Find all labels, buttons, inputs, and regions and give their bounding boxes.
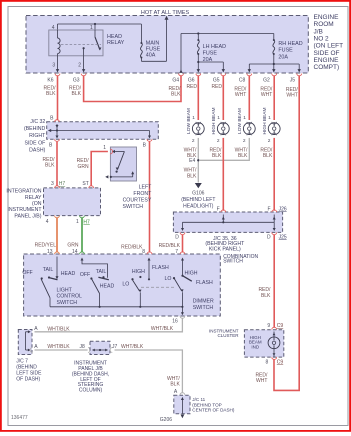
svg-text:H7: H7 — [83, 219, 90, 225]
LH head fuse 20A — [197, 39, 199, 41]
svg-text:9: 9 — [267, 323, 270, 329]
svg-text:INTEGRATION: INTEGRATION — [6, 189, 41, 195]
svg-text:BLK: BLK — [45, 163, 55, 169]
svg-text:OFF: OFF — [22, 270, 32, 276]
integration relay pin ST — [89, 186, 94, 188]
svg-text:TAIL: TAIL — [96, 269, 107, 275]
left front courtesy switch — [110, 147, 136, 181]
svg-text:BLK: BLK — [261, 293, 271, 299]
ground G106 — [195, 183, 202, 188]
head relay — [49, 30, 103, 56]
wire WHT/BLK pin 16 to J/C 7 — [35, 319, 183, 332]
svg-text:WHT: WHT — [261, 92, 272, 98]
high beam indicator pin 8 — [272, 357, 277, 359]
J/C 7 connector A bottom — [30, 348, 32, 353]
svg-text:FLASH: FLASH — [196, 280, 213, 286]
svg-text:C9: C9 — [277, 360, 284, 366]
wire RED/WHT J5 to high beam indicator — [274, 76, 299, 390]
svg-text:HIGH: HIGH — [132, 269, 145, 275]
svg-text:20A: 20A — [278, 54, 288, 60]
svg-text:ST: ST — [82, 181, 88, 187]
svg-text:G3: G3 — [73, 77, 80, 83]
J/C 35 36 connector F right — [272, 210, 277, 212]
svg-text:RED: RED — [186, 84, 197, 90]
wire RED/BLK J/C32 to light control switch pin 8 — [149, 142, 151, 253]
svg-text:1: 1 — [243, 115, 246, 121]
svg-text:SIDE OF: SIDE OF — [314, 50, 340, 57]
svg-text:13: 13 — [47, 249, 53, 255]
wire main fuse to head relay pins 4 and 1 — [140, 24, 142, 43]
wire RED/BLK LH high beam to J/C 35 36 — [222, 138, 224, 211]
svg-text:J25: J25 — [279, 234, 287, 240]
J/C 35 36 connector F left — [221, 210, 226, 212]
svg-text:2: 2 — [192, 138, 195, 144]
dimmer switch mechanical link — [141, 286, 174, 288]
svg-text:SWITCH: SWITCH — [123, 204, 144, 210]
svg-text:RED: RED — [211, 84, 222, 90]
light control switch contact set A — [56, 257, 58, 277]
junction connector J/C 11 — [174, 395, 190, 414]
svg-text:ENGINE: ENGINE — [314, 14, 340, 21]
svg-text:16: 16 — [172, 318, 178, 324]
svg-text:RED/BLK: RED/BLK — [121, 244, 143, 250]
svg-text:HEAD: HEAD — [107, 34, 122, 40]
junction connector J/C 7 — [18, 330, 32, 355]
svg-text:TAIL: TAIL — [43, 267, 54, 273]
svg-text:8: 8 — [266, 360, 269, 366]
svg-text:J26: J26 — [279, 206, 287, 212]
svg-text:J/B: J/B — [314, 28, 323, 35]
svg-text:BLK: BLK — [238, 153, 248, 159]
svg-text:FRONT: FRONT — [133, 191, 152, 197]
light control switch contact set B — [81, 258, 84, 261]
svg-text:J/C 32: J/C 32 — [30, 119, 45, 125]
RH low beam headlight — [247, 122, 252, 124]
integration relay pin 4 — [55, 216, 60, 218]
LH high beam headlight — [221, 122, 226, 124]
svg-text:1: 1 — [76, 219, 79, 225]
wire WHT/BLK instrument panel J/B to J/C 11 — [115, 350, 183, 393]
LH low beam headlight — [196, 122, 201, 124]
svg-text:14: 14 — [72, 249, 78, 255]
svg-text:D: D — [267, 234, 271, 240]
svg-text:LIGHT: LIGHT — [57, 287, 73, 293]
svg-text:G106: G106 — [192, 191, 204, 197]
dimmer switch contact set B — [181, 258, 184, 261]
wire RED/BLK RH high beam to J/C 35 36 — [273, 138, 275, 211]
svg-text:BLK: BLK — [72, 91, 82, 97]
svg-text:LOW BEAM: LOW BEAM — [186, 108, 192, 134]
svg-text:136477: 136477 — [11, 415, 28, 421]
connector G6 — [196, 74, 201, 76]
svg-text:40A: 40A — [146, 53, 156, 59]
svg-text:3: 3 — [52, 62, 55, 68]
svg-text:DIMMER: DIMMER — [193, 299, 214, 305]
head relay contact — [94, 30, 96, 37]
integration relay pin 3 — [55, 186, 60, 188]
wire RED/YEL integration relay to light control switch pin 13 — [56, 218, 58, 253]
J/C 7 connector A top — [30, 329, 32, 334]
svg-text:WHT: WHT — [235, 92, 246, 98]
junction connector J/C 32 — [47, 122, 159, 139]
svg-text:RELAY: RELAY — [107, 40, 125, 46]
svg-text:NO 2: NO 2 — [314, 35, 330, 42]
wire RED/BLK G3 to G4 loop — [84, 76, 181, 102]
svg-text:GRN: GRN — [77, 164, 89, 170]
svg-text:1: 1 — [90, 25, 93, 31]
engine room J/B No.2 box — [26, 16, 308, 74]
svg-text:KICK PANEL): KICK PANEL) — [209, 246, 241, 252]
svg-text:LEFT: LEFT — [139, 184, 153, 190]
svg-text:2: 2 — [217, 138, 220, 144]
svg-text:1: 1 — [192, 115, 195, 121]
svg-text:8: 8 — [142, 249, 145, 255]
wire RED/WHT C8 to RH low beam — [248, 76, 250, 120]
svg-text:CONTROL: CONTROL — [57, 294, 82, 300]
instrument cluster high beam indicator — [244, 330, 283, 357]
wire RED/BLK J/C32 to integration relay pin 3 — [56, 142, 58, 186]
wire RED/BLK J/C 35 36 to high beam indicator pin 9 — [273, 235, 275, 327]
svg-text:(BEHIND LEFT: (BEHIND LEFT — [181, 197, 215, 203]
svg-text:G206: G206 — [160, 417, 172, 423]
svg-text:OF DASH): OF DASH) — [16, 376, 40, 382]
svg-text:2: 2 — [268, 138, 271, 144]
LH head fuse output wires to G6 and G5 — [197, 54, 199, 70]
svg-text:WHT/BLK: WHT/BLK — [47, 326, 70, 332]
dimmer switch pin 7 — [180, 252, 185, 254]
J/C 11 connector A — [180, 393, 185, 395]
wire WHT/BLK J/C 7 to instrument panel J/B — [35, 349, 88, 351]
svg-text:LOW BEAM: LOW BEAM — [237, 108, 243, 134]
wire RED G5 to LH high beam — [222, 76, 224, 120]
svg-text:BLK: BLK — [171, 92, 181, 98]
svg-text:E4: E4 — [189, 158, 195, 164]
svg-text:2: 2 — [243, 138, 246, 144]
integration relay pin 1 — [80, 216, 85, 218]
svg-text:COMPT): COMPT) — [314, 64, 340, 71]
J/C 35 36 connector D right — [272, 233, 277, 235]
svg-text:4: 4 — [52, 25, 55, 31]
connector G5 — [221, 74, 226, 76]
combination switch pin 16 — [180, 316, 185, 318]
svg-text:J8: J8 — [80, 344, 86, 350]
wire RED/BLK K6 to J/C 32 — [57, 76, 59, 120]
connector K6 — [55, 74, 60, 76]
svg-text:1: 1 — [217, 115, 220, 121]
svg-text:FUSE: FUSE — [278, 48, 293, 54]
svg-text:J5: J5 — [290, 77, 296, 83]
svg-text:COLUMN): COLUMN) — [79, 388, 103, 394]
svg-text:OFF: OFF — [80, 272, 90, 278]
instrument panel J/B — [90, 341, 110, 354]
wire G4 to head fuses bus — [180, 34, 182, 72]
svg-text:BLK: BLK — [46, 91, 56, 97]
svg-text:HIGH BEAM: HIGH BEAM — [211, 108, 217, 135]
connector G2 — [272, 74, 277, 76]
integration relay — [44, 188, 101, 216]
svg-text:HIGH: HIGH — [185, 270, 198, 276]
wire RED/WHT G2 to RH high beam — [273, 76, 275, 120]
svg-text:LO: LO — [165, 276, 172, 282]
svg-text:H7: H7 — [59, 181, 66, 187]
wire feed from battery to main fuse — [166, 20, 168, 62]
light control switch pin 13 — [55, 252, 60, 254]
svg-text:HEAD: HEAD — [100, 283, 115, 289]
svg-text:BLK: BLK — [212, 153, 222, 159]
svg-text:HEAD: HEAD — [61, 271, 76, 277]
wire GRN integration relay to light control switch pin 14 — [81, 218, 83, 253]
svg-text:SWITCH: SWITCH — [57, 300, 78, 306]
svg-text:LH HEAD: LH HEAD — [203, 44, 226, 50]
svg-text:CENTER OF DASH): CENTER OF DASH) — [192, 408, 235, 413]
svg-text:K6: K6 — [47, 77, 53, 83]
svg-text:INSTRUMENT: INSTRUMENT — [7, 207, 42, 213]
wire RED G6 to LH low beam — [197, 76, 199, 120]
svg-text:RED/YEL: RED/YEL — [35, 242, 57, 248]
svg-text:SIDE OF: SIDE OF — [25, 140, 46, 146]
svg-text:D: D — [175, 234, 179, 240]
svg-text:1: 1 — [268, 115, 271, 121]
high beam indicator pin 9 — [272, 327, 277, 329]
svg-text:G6: G6 — [188, 77, 195, 83]
high beam indicator bulb — [273, 332, 275, 337]
instrument panel J/B connector J8 — [88, 348, 90, 353]
ground G206 — [181, 415, 185, 419]
switch output bus to pin 16 — [50, 306, 182, 308]
svg-text:J7: J7 — [112, 344, 118, 350]
RH head fuse 20A — [273, 39, 275, 41]
svg-text:F: F — [268, 206, 271, 212]
svg-text:4: 4 — [46, 219, 49, 225]
svg-text:HOT AT ALL TIMES: HOT AT ALL TIMES — [141, 10, 190, 16]
svg-text:PANEL J/B): PANEL J/B) — [14, 213, 41, 219]
svg-text:C8: C8 — [239, 77, 246, 83]
svg-text:2: 2 — [78, 62, 81, 68]
svg-text:ENGINE: ENGINE — [314, 57, 340, 64]
head relay internal dashed link — [61, 44, 101, 46]
svg-text:DASH): DASH) — [29, 148, 45, 154]
RH head fuse output bus to C8 G2 J5 — [273, 54, 275, 64]
svg-text:C9: C9 — [277, 323, 284, 329]
svg-text:WHT: WHT — [286, 93, 297, 99]
svg-text:7: 7 — [175, 249, 178, 255]
wire WHT/BLK LH low beam ground to E4 — [197, 138, 199, 183]
connector G4 — [179, 74, 184, 76]
svg-text:ROOM: ROOM — [314, 21, 334, 28]
svg-text:LO: LO — [122, 282, 129, 288]
svg-text:IND: IND — [251, 345, 260, 350]
svg-text:F: F — [217, 206, 220, 212]
svg-text:G5: G5 — [213, 77, 220, 83]
svg-text:G4: G4 — [172, 77, 179, 83]
svg-text:WHT/BLK: WHT/BLK — [47, 344, 70, 350]
svg-text:WHT: WHT — [256, 378, 267, 384]
svg-text:G2: G2 — [263, 77, 270, 83]
combination switch — [24, 254, 221, 316]
connector J5 — [297, 74, 302, 76]
junction connector J/C 35 36 — [173, 212, 282, 232]
head relay coil — [57, 30, 59, 38]
svg-text:GRN: GRN — [67, 242, 79, 248]
light control switch pin 14 — [80, 252, 85, 254]
svg-text:HIGH BEAM: HIGH BEAM — [262, 108, 268, 135]
svg-text:WHT/BLK: WHT/BLK — [151, 326, 174, 332]
svg-text:SWITCH: SWITCH — [193, 305, 214, 311]
svg-text:CLUSTER: CLUSTER — [217, 333, 239, 338]
wire RED/BLK J/C 35 36 to dimmer switch pin 7 — [182, 235, 184, 253]
svg-text:(BEHIND: (BEHIND — [24, 126, 46, 132]
svg-text:BLK: BLK — [263, 153, 273, 159]
svg-text:FUSE: FUSE — [203, 51, 218, 57]
svg-text:FLASH: FLASH — [152, 265, 169, 271]
dimmer switch contact set A — [148, 258, 151, 261]
wire RED/GRN courtesy switch to integration relay ST — [91, 152, 108, 186]
svg-text:(ON LEFT: (ON LEFT — [314, 43, 344, 50]
svg-text:HEADLIGHT): HEADLIGHT) — [183, 204, 214, 210]
svg-text:COURTESY: COURTESY — [123, 197, 152, 203]
svg-text:RIGHT: RIGHT — [29, 133, 46, 139]
svg-text:BLK: BLK — [187, 173, 197, 179]
svg-text:RELAY: RELAY — [25, 195, 42, 201]
connector G3 — [81, 74, 86, 76]
dimmer switch pin 8 — [147, 252, 152, 254]
node E4 — [197, 159, 199, 161]
head relay pin 3 — [57, 56, 59, 70]
head relay pin 2 — [83, 56, 85, 70]
svg-text:RH HEAD: RH HEAD — [278, 41, 302, 47]
J/C 32 connector B top — [55, 120, 60, 122]
wire WHT/BLK RH low beam ground to E4 — [199, 138, 249, 160]
svg-text:3: 3 — [51, 181, 54, 187]
connector C8 — [247, 74, 252, 76]
J/C 35 36 connector D left — [180, 233, 185, 235]
J/C 32 connector B bottom left — [55, 139, 60, 141]
svg-text:(ON: (ON — [32, 201, 42, 207]
instrument panel J/B connector J7 — [110, 348, 112, 353]
RH high beam headlight — [272, 122, 277, 124]
svg-text:BLK: BLK — [170, 382, 180, 388]
main fuse 40A — [140, 42, 142, 44]
courtesy switch pin 1 — [110, 149, 112, 154]
svg-text:WHT/BLK: WHT/BLK — [121, 344, 144, 350]
svg-text:1: 1 — [103, 145, 106, 151]
J/C 32 connector B bottom right — [147, 139, 152, 141]
svg-text:SWITCH: SWITCH — [223, 259, 243, 265]
